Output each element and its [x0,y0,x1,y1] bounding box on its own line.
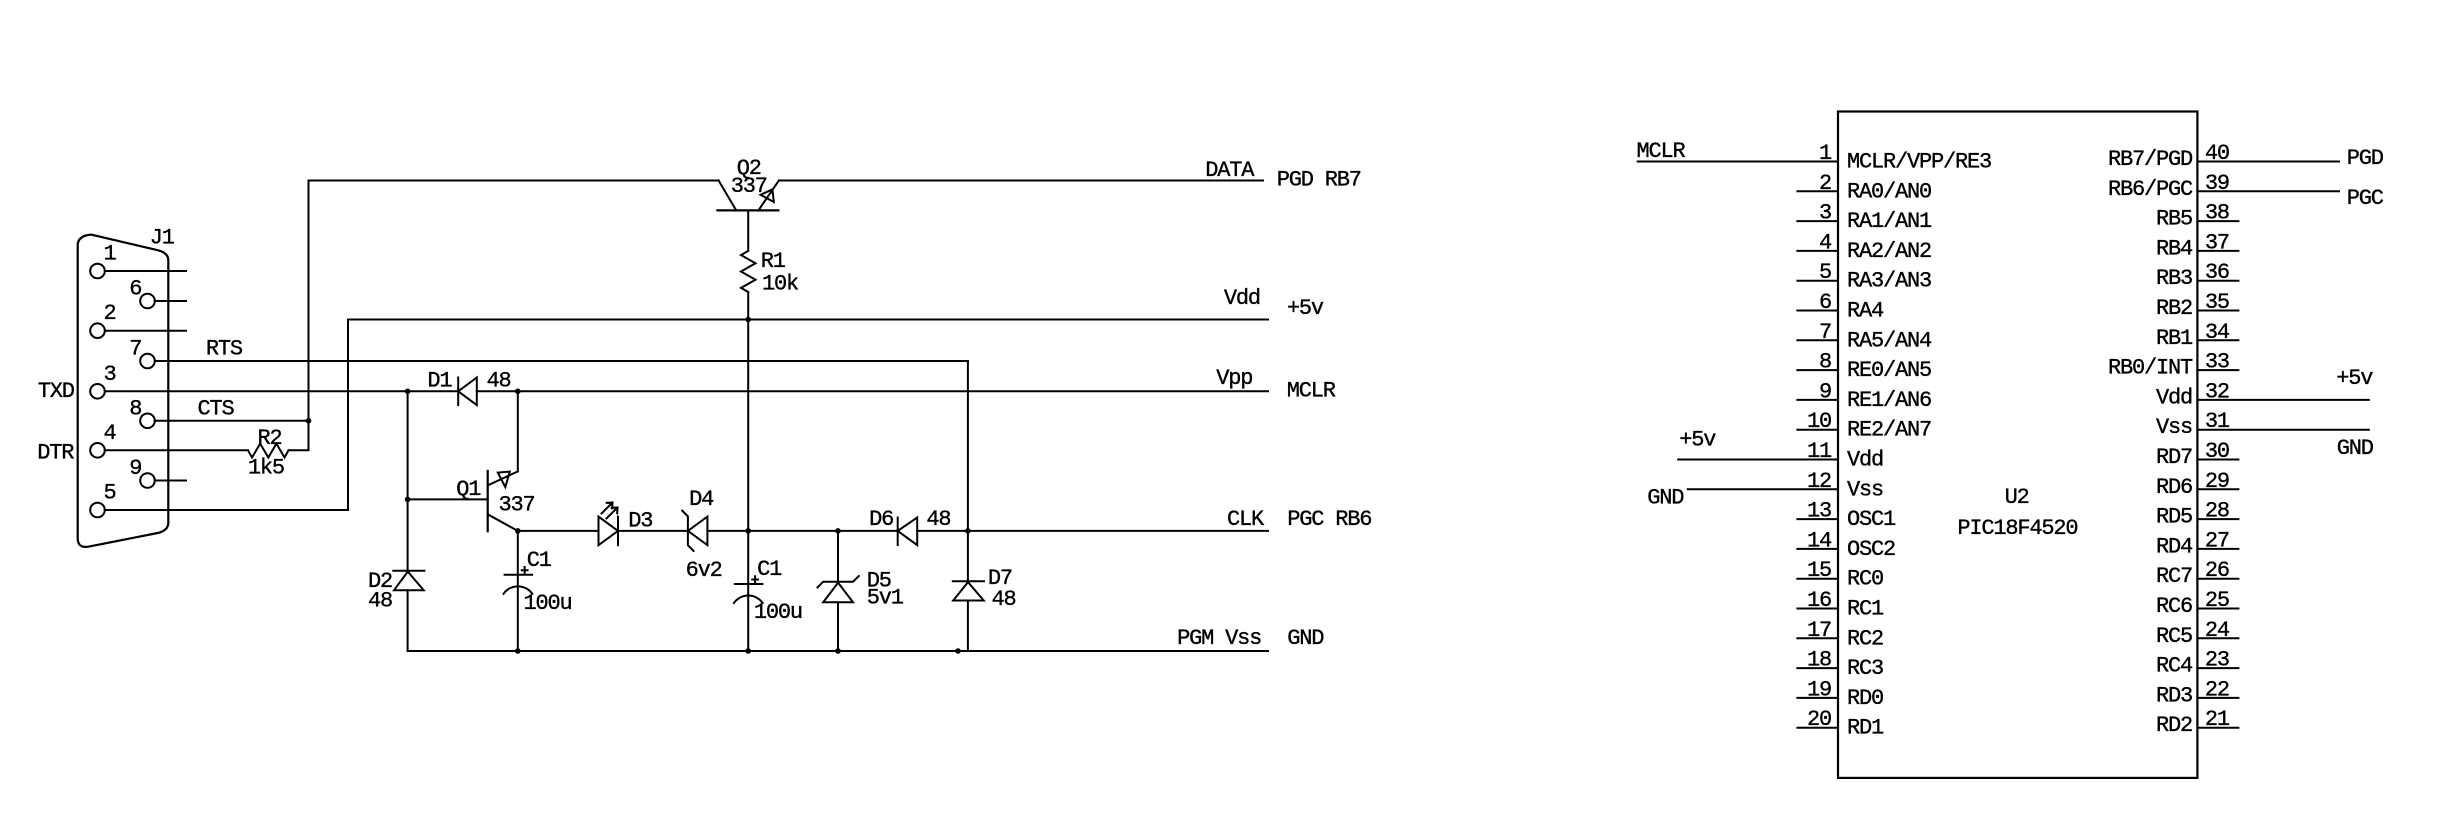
LED D3 triangle [599,517,619,546]
IC U2 body outline [1838,112,2197,778]
svg-text:RA1/AN1: RA1/AN1 [1847,209,1932,234]
svg-text:U2: U2 [2005,485,2029,510]
wire: D2 to GND corner [407,590,409,651]
svg-text:RB2: RB2 [2156,296,2192,321]
svg-text:Vss: Vss [2156,415,2192,440]
wire: +5v net into pin 11 [1678,459,1838,461]
svg-text:Vdd: Vdd [1224,286,1260,311]
wire: U2 pin 9 stub [1797,399,1838,401]
svg-text:RB7/PGD: RB7/PGD [2108,147,2193,172]
wire: J1 pin 1 stub [105,270,186,272]
svg-text:3: 3 [104,362,116,387]
wire: U2 pin 19 stub [1797,697,1838,699]
wire: U2 pin 2 stub [1797,190,1838,192]
junction dot Q1 base [405,497,411,503]
svg-text:38: 38 [2205,201,2229,226]
svg-text:21: 21 [2205,707,2230,732]
junction dot CTS/DTR riser [306,418,312,424]
svg-text:29: 29 [2205,469,2229,494]
svg-text:22: 22 [2205,677,2229,702]
wire: CLK D4 to D6 [707,530,897,532]
wire: vertical from TXD to D2 [407,391,409,570]
svg-text:RA3/AN3: RA3/AN3 [1847,269,1931,294]
J1 pin 9 circle [140,473,155,488]
wire: U2 pin 30 stub [2197,459,2238,461]
svg-text:10k: 10k [762,272,799,297]
wire: TXD/Vpp/MCLR net from D1 to label [477,390,1268,392]
wire: CLK D6 to label [917,530,1268,532]
transistor Q1 base bar [487,471,489,531]
svg-text:11: 11 [1807,439,1832,464]
wire: RTS riser down through CLK to D7 [967,361,969,581]
junction dot GND/C1b [745,648,751,654]
svg-text:9: 9 [1819,379,1831,404]
wire: U2 pin 37 stub [2197,250,2238,252]
svg-text:34: 34 [2205,320,2230,345]
wire: U2 pin 24 stub [2197,637,2238,639]
svg-text:Vdd: Vdd [2156,385,2192,410]
svg-text:Vpp: Vpp [1216,366,1252,391]
diode D1 cathode bar [457,378,459,406]
diode D7 triangle [953,582,984,600]
wire: Vdd line [348,319,1268,321]
wire: U2 pin 20 stub [1797,727,1838,729]
wire: U2 pin 21 stub [2197,727,2238,729]
junction dot TXD/D2 vertical [405,389,411,395]
wire: U2 pin 25 stub [2197,608,2238,610]
svg-text:4: 4 [104,421,117,446]
wire: RTS net from pin 7 to riser [155,360,968,362]
svg-text:17: 17 [1807,618,1831,643]
svg-text:1k5: 1k5 [248,455,284,480]
wire: U2 pin 22 stub [2197,697,2238,699]
svg-text:R2: R2 [258,426,282,451]
wire: U2 pin 14 stub [1797,548,1838,550]
svg-text:337: 337 [499,493,535,518]
svg-text:337: 337 [731,174,767,199]
wire: U2 pin 16 stub [1797,608,1838,610]
wire: U2 pin 28 stub [2197,518,2238,520]
svg-text:40: 40 [2205,141,2229,166]
svg-text:RA0/AN0: RA0/AN0 [1847,179,1931,204]
wire: D5 to GND [837,602,839,651]
diode D6 triangle [898,518,918,546]
wire: pin 39 net wire [2197,190,2339,192]
svg-text:14: 14 [1807,528,1832,553]
svg-text:OSC1: OSC1 [1847,507,1896,532]
svg-text:J1: J1 [150,226,175,251]
junction dot CLK/C1a [515,528,521,534]
svg-text:RD3: RD3 [2156,683,2192,708]
svg-text:MCLR/VPP/RE3: MCLR/VPP/RE3 [1847,150,1991,175]
junction dot Vdd/R1 [745,317,751,323]
wire: U2 pin 36 stub [2197,280,2238,282]
wire: J1 pin 9 stub [155,480,186,482]
wire: Q1 emitter up to TXD line [517,391,519,471]
wire: pin 32 net wire [2197,399,2368,401]
svg-text:CTS: CTS [198,396,235,421]
diode D2 cathode bar [393,570,424,572]
svg-text:GND: GND [1647,485,1684,510]
wire: DATA line left segment to Q2 [309,180,719,182]
J1 pin 1 circle [90,264,105,279]
svg-text:100u: 100u [754,600,802,625]
svg-text:RTS: RTS [206,336,243,361]
wire: U2 pin 6 stub [1797,310,1838,312]
svg-text:48: 48 [992,587,1016,612]
junction dot CLK/R1 vertical [745,528,751,534]
LED D3 emission arrows [602,503,618,519]
svg-text:RD5: RD5 [2156,505,2192,530]
wire: U2 pin 18 stub [1797,667,1838,669]
wire: pin 5 net to riser [105,320,348,511]
svg-text:31: 31 [2205,409,2230,434]
svg-text:RC4: RC4 [2156,654,2193,679]
svg-text:30: 30 [2205,439,2229,464]
svg-text:TXD: TXD [38,379,75,404]
transistor Q2 base bar [717,209,778,211]
svg-text:10: 10 [1807,409,1831,434]
svg-text:C1: C1 [527,548,552,573]
transistor Q2 emitter diagonal [758,181,779,211]
svg-text:5: 5 [1819,260,1831,285]
svg-text:9: 9 [129,456,141,481]
svg-text:2: 2 [104,301,116,326]
svg-text:DATA: DATA [1205,158,1255,183]
svg-text:Vdd: Vdd [1847,448,1883,473]
svg-text:1: 1 [104,242,117,267]
svg-text:23: 23 [2205,648,2229,673]
svg-text:36: 36 [2205,260,2229,285]
svg-text:5v1: 5v1 [867,586,904,611]
wire: U2 pin 7 stub [1797,339,1838,341]
wire: pin 40 net wire [2197,161,2339,163]
J1 pin 3 circle [90,384,105,399]
svg-text:DTR: DTR [37,440,74,465]
svg-text:18: 18 [1807,648,1831,673]
wire: DTR net from pin 4 to R2 [105,449,248,451]
svg-text:15: 15 [1807,558,1831,583]
svg-text:RC5: RC5 [2156,624,2192,649]
wire: pin 31 net wire [2197,429,2368,431]
svg-text:32: 32 [2205,379,2229,404]
svg-text:RD1: RD1 [1847,716,1884,741]
wire: CLK net Q1 collector to D3 [518,530,599,532]
capacitor C1 (right) curved plate [734,596,763,603]
wire: D5 vertical CLK to bar [837,531,839,582]
capacitor C1 (right) plus sign [752,576,758,583]
zener D4 triangle [688,517,708,546]
svg-text:RC6: RC6 [2156,594,2192,619]
svg-text:D4: D4 [689,487,714,512]
svg-text:RE1/AN6: RE1/AN6 [1847,388,1931,413]
wire: U2 pin 17 stub [1797,637,1838,639]
svg-text:13: 13 [1807,499,1831,524]
svg-text:27: 27 [2205,528,2229,553]
svg-text:1: 1 [1819,141,1832,166]
capacitor C1 (left) top plate [505,574,532,576]
svg-text:D6: D6 [869,507,893,532]
junction dot CLK/D7 riser [965,528,971,534]
svg-text:RC2: RC2 [1847,626,1883,651]
wire: U2 pin 35 stub [2197,310,2238,312]
wire: U2 pin 5 stub [1797,280,1838,282]
wire: R1 vertical Vdd to CLK [747,320,749,531]
svg-text:6v2: 6v2 [686,558,722,583]
svg-text:RC3: RC3 [1847,656,1883,681]
svg-text:RE0/AN5: RE0/AN5 [1847,358,1931,383]
transistor Q2 emitter arrow [761,189,774,202]
wire: GND net into pin 12 [1688,488,1838,490]
svg-text:RD6: RD6 [2156,475,2192,500]
wire: U2 pin 26 stub [2197,578,2238,580]
svg-text:RD0: RD0 [1847,686,1883,711]
wire: riser from CTS junction up to DATA line [308,181,310,421]
svg-text:RC7: RC7 [2156,564,2192,589]
svg-text:39: 39 [2205,171,2229,196]
svg-text:8: 8 [129,396,141,421]
svg-text:16: 16 [1807,588,1831,613]
svg-text:8: 8 [1819,350,1831,375]
junction dot GND/D5 [835,648,841,654]
svg-text:MCLR: MCLR [1287,378,1336,403]
zener D5 triangle [823,583,853,603]
svg-text:RB1: RB1 [2156,326,2193,351]
svg-text:20: 20 [1807,707,1831,732]
resistor R2 zigzag [248,444,289,458]
svg-text:Q1: Q1 [456,477,481,502]
wire: Q2 base down to R1 [747,210,749,251]
diode D1 triangle [458,378,477,406]
svg-text:RD2: RD2 [2156,713,2192,738]
wire: CLK down through C1 (right) to GND [747,531,749,651]
wire: D7 to GND [967,601,969,652]
zener D5 cathode bar with hooks [818,576,859,587]
wire: PGM Vss GND line [408,650,1268,652]
wire: CLK down through C1 to GND [517,531,519,651]
svg-text:PGC: PGC [2347,186,2384,211]
svg-text:D1: D1 [427,369,452,394]
junction dot GND (offset quirk) [955,648,961,654]
svg-text:4: 4 [1819,230,1832,255]
transistor Q1 emitter arrow [498,472,510,488]
svg-text:RC0: RC0 [1847,567,1883,592]
wire: U2 pin 15 stub [1797,578,1838,580]
wire: TXD/Vpp/MCLR net from pin 3 to D1 [105,390,458,392]
svg-text:RE2/AN7: RE2/AN7 [1847,418,1931,443]
svg-text:48: 48 [926,507,950,532]
transistor Q1 collector diagonal [488,514,518,531]
transistor Q1 emitter diagonal [488,471,518,485]
svg-text:PGM Vss: PGM Vss [1177,626,1261,651]
svg-text:RB3: RB3 [2156,266,2192,291]
svg-text:5: 5 [104,481,116,506]
svg-text:GND: GND [2337,436,2374,461]
svg-text:RB4: RB4 [2156,236,2193,261]
svg-text:33: 33 [2205,350,2229,375]
wire: MCLR net into pin 1 [1638,161,1838,163]
svg-text:RB5: RB5 [2156,207,2192,232]
svg-text:GND: GND [1287,626,1324,651]
junction dot GND/C1a [515,648,521,654]
svg-text:PIC18F4520: PIC18F4520 [1957,516,2077,541]
svg-text:Vss: Vss [1847,477,1883,502]
svg-text:C1: C1 [757,557,782,582]
wire: U2 pin 33 stub [2197,369,2238,371]
J1 pin 8 circle [140,414,155,429]
svg-text:35: 35 [2205,290,2229,315]
diode D2 triangle [394,572,424,591]
svg-text:2: 2 [1819,171,1831,196]
svg-text:6: 6 [1819,290,1831,315]
svg-text:+5v: +5v [1287,296,1324,321]
wire: J1 pin 6 stub [155,300,186,302]
svg-text:R1: R1 [761,249,786,274]
svg-text:RA2/AN2: RA2/AN2 [1847,239,1931,264]
capacitor C1 (left) curved plate [504,586,533,593]
svg-text:100u: 100u [524,591,572,616]
junction dot CLK/D5 [835,528,841,534]
J1 pin 4 circle [90,443,105,458]
svg-text:12: 12 [1807,469,1831,494]
J1 pin 5 circle [90,503,105,518]
svg-text:48: 48 [487,368,511,393]
svg-text:48: 48 [368,589,392,614]
wire: U2 pin 23 stub [2197,667,2238,669]
wire: R1 to Vdd [747,292,749,320]
svg-text:OSC2: OSC2 [1847,537,1895,562]
wire: CTS net from pin 8 [155,420,309,422]
svg-text:RC1: RC1 [1847,597,1884,622]
svg-text:RD7: RD7 [2156,445,2192,470]
J1 pin 7 circle [140,354,155,369]
diode D6 cathode bar [897,518,899,546]
svg-text:RB0/INT: RB0/INT [2108,356,2193,381]
wire: U2 pin 4 stub [1797,250,1838,252]
capacitor C1 (left) plus sign [522,567,528,574]
wire: U2 pin 27 stub [2197,548,2238,550]
resistor R1 zigzag [741,251,756,292]
svg-text:RA5/AN4: RA5/AN4 [1847,328,1932,353]
svg-text:+5v: +5v [1679,427,1716,452]
wire: J1 pin 2 stub [105,330,186,332]
transistor Q1 base wire [408,498,488,500]
wire: DATA right segment [779,180,1263,182]
wire: U2 pin 10 stub [1797,429,1838,431]
svg-text:PGC RB6: PGC RB6 [1287,507,1371,532]
wire: U2 pin 3 stub [1797,220,1838,222]
wire: CLK D3 to D4 [618,530,688,532]
connector J1 outline [78,235,169,547]
svg-text:37: 37 [2205,230,2229,255]
svg-text:RB6/PGC: RB6/PGC [2108,177,2193,202]
svg-text:7: 7 [129,337,141,362]
junction dot TXD/Q1 emitter [515,389,521,395]
svg-text:7: 7 [1819,320,1831,345]
wire: U2 pin 8 stub [1797,369,1838,371]
wire: R2 to riser corner [289,421,309,451]
svg-text:PGD RB7: PGD RB7 [1277,168,1361,193]
transistor Q2 collector diagonal [719,181,737,211]
zener D4 cathode bar with hooks [682,511,693,551]
svg-text:CLK: CLK [1227,507,1265,532]
svg-text:28: 28 [2205,499,2229,524]
wire: U2 pin 13 stub [1797,518,1838,520]
diode D7 cathode bar [953,580,984,582]
svg-text:+5v: +5v [2336,366,2373,391]
svg-text:19: 19 [1807,677,1831,702]
wire: U2 pin 29 stub [2197,488,2238,490]
wire: U2 pin 38 stub [2197,220,2238,222]
svg-text:26: 26 [2205,558,2229,583]
svg-text:RA4: RA4 [1847,299,1884,324]
svg-text:24: 24 [2205,618,2230,643]
LED D3 cathode bar [617,517,619,546]
svg-text:3: 3 [1819,201,1831,226]
svg-text:6: 6 [129,277,141,302]
J1 pin 6 circle [140,294,155,309]
capacitor C1 (right) top plate [735,583,763,585]
wire: U2 pin 34 stub [2197,339,2238,341]
J1 pin 2 circle [90,323,105,338]
svg-text:PGD: PGD [2347,146,2384,171]
svg-text:RD4: RD4 [2156,534,2193,559]
svg-text:MCLR: MCLR [1637,139,1686,164]
svg-text:25: 25 [2205,588,2229,613]
